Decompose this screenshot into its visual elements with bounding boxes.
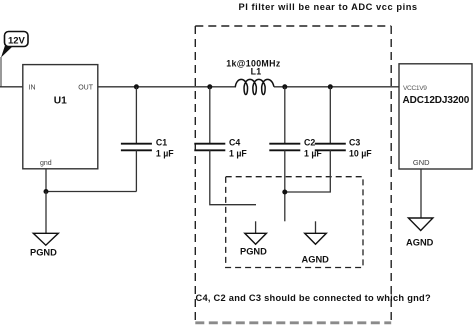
svg-text:U1: U1 [54,96,67,107]
svg-text:ADC12DJ3200: ADC12DJ3200 [403,95,470,106]
node: gnd junction [44,189,49,194]
inner dashed region (grounds) [226,177,363,268]
wire C1 to gnd net [46,191,136,193]
svg-text:C1: C1 [156,138,167,148]
svg-text:gnd: gnd [40,160,52,167]
svg-text:C4: C4 [229,138,240,148]
wire ADC GND pin [420,169,422,218]
svg-text:VCC1V9: VCC1V9 [403,85,427,92]
ground PGND (left) [30,192,58,258]
svg-text:AGND: AGND [406,238,434,248]
IC ADC12DJ3200 [399,64,472,169]
node: C3 tap [328,84,333,89]
wire L1 to ADC VCC1V9 [274,86,399,88]
capacitor C1 [121,87,174,192]
node: C2/C3 junction [282,190,287,195]
inductor L1 [226,59,281,95]
svg-text:10 µF: 10 µF [349,149,372,159]
svg-text:GND: GND [413,158,430,167]
svg-text:C2: C2 [304,138,315,148]
svg-text:1 µF: 1 µF [156,149,174,159]
svg-text:PGND: PGND [240,247,267,257]
capacitor C3 [315,87,372,159]
node: C4 tap [207,84,212,89]
node: C1 tap [134,84,139,89]
ground PGND (inner) [240,221,267,256]
wire U1 OUT to L1 [98,86,236,88]
svg-text:PI filter will be near to ADC: PI filter will be near to ADC vcc pins [239,2,418,12]
capacitor C2 [269,87,322,159]
svg-text:PGND: PGND [30,248,57,258]
wire C3 bottom to C2 [285,150,331,192]
svg-text:C4, C2 and C3 should be connec: C4, C2 and C3 should be connected to whi… [196,293,431,303]
wire to U1 IN [0,86,23,88]
ground AGND (inner) [302,221,330,264]
wire C4 bottom (dangling) [210,150,256,204]
wire U1 gnd pin [45,169,47,192]
ground AGND (right) [406,218,434,248]
wire 12V vertical [0,57,2,87]
outer dashed region (PI filter) [195,26,391,323]
svg-text:C3: C3 [349,138,360,148]
svg-text:L1: L1 [251,67,262,77]
power flag 12V [1,32,28,58]
svg-text:AGND: AGND [302,255,330,265]
node: C2 tap [282,84,287,89]
svg-text:OUT: OUT [78,84,94,91]
svg-text:IN: IN [29,84,36,91]
svg-text:1 µF: 1 µF [229,149,247,159]
capacitor C4 [194,87,247,159]
IC U1 [23,65,98,169]
svg-text:12V: 12V [8,35,26,46]
wire C2 bottom (dangling) [284,150,286,221]
